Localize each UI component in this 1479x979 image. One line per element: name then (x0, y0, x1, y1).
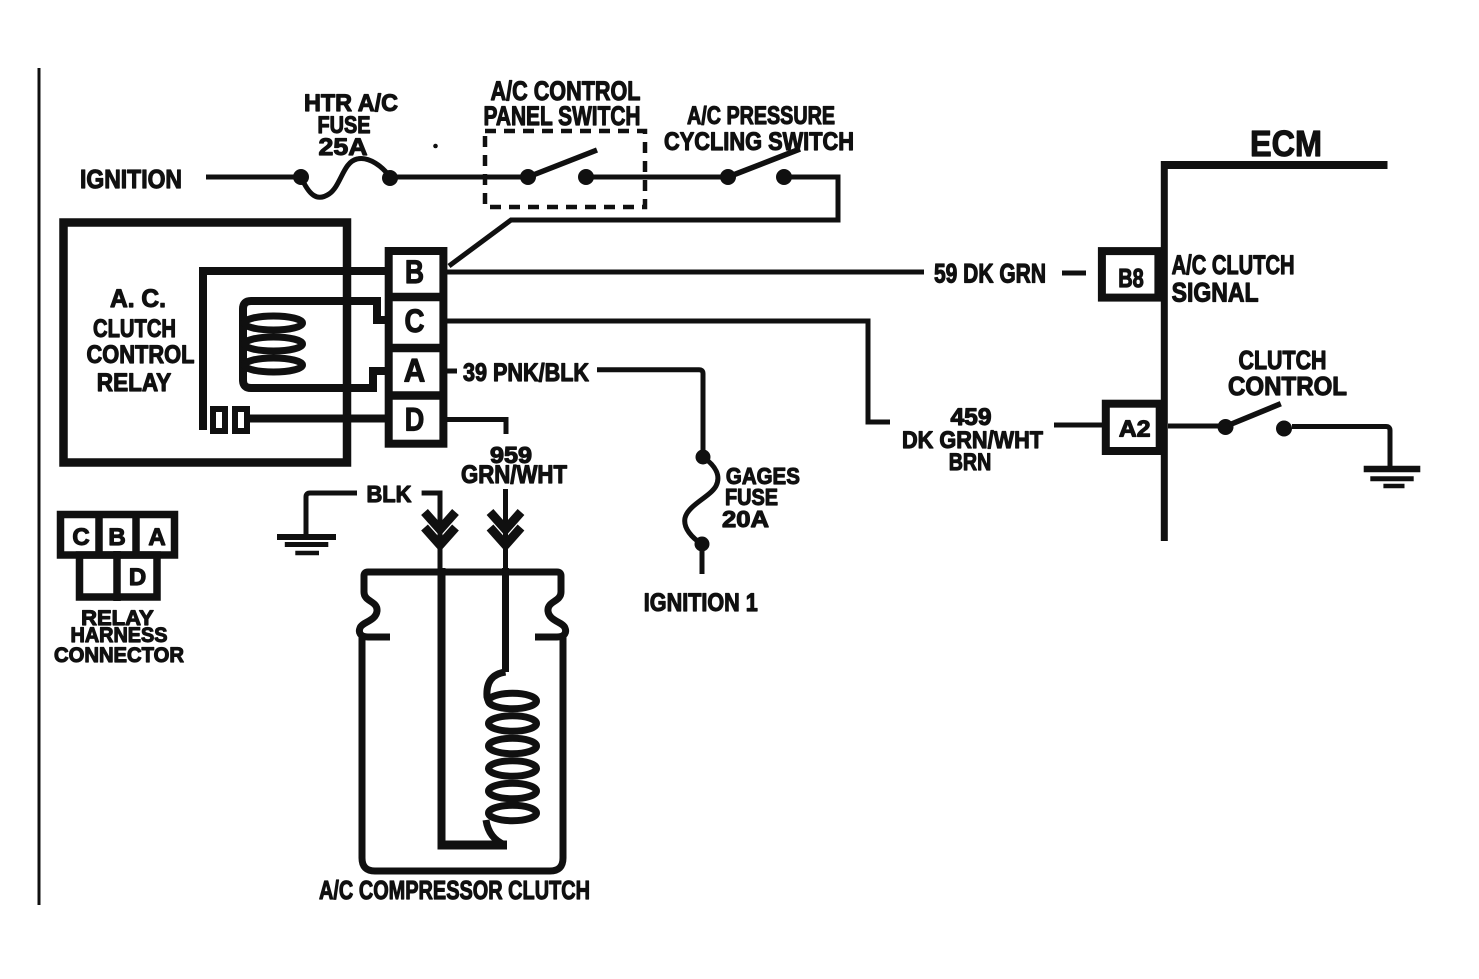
svg-text:D: D (405, 402, 425, 438)
arrow chevron right lower (490, 528, 521, 546)
pressure switch contact dot right (776, 169, 792, 185)
connector divider C|A (386, 344, 446, 353)
svg-text:A. C.: A. C. (110, 285, 166, 313)
wire 459 to A2 (1054, 423, 1106, 428)
svg-text:A: A (148, 524, 165, 551)
junction dot gages fuse bottom (695, 537, 710, 552)
ground (ECM side) bar 2 (1370, 476, 1413, 481)
svg-text:25A: 25A (319, 134, 368, 161)
harness divider B|A (132, 511, 140, 555)
wire A2 to clutch control switch (1168, 424, 1225, 429)
svg-text:CONNECTOR: CONNECTOR (54, 644, 184, 667)
relay coil box (C to A loop) (243, 301, 390, 388)
svg-text:A/C CLUTCH: A/C CLUTCH (1172, 250, 1295, 280)
svg-text:39 PNK/BLK: 39 PNK/BLK (463, 359, 589, 387)
pressure switch blade (728, 149, 800, 177)
clutch coil winding 5 (489, 783, 537, 798)
clutch control switch blade (1229, 404, 1281, 425)
connector divider B|C (386, 293, 446, 302)
left page border (38, 68, 41, 905)
wire BLK left segment to ground (306, 493, 357, 535)
wire B to ECM B8 (59 DK GRN) (443, 270, 924, 275)
relay coil winding 2 (245, 337, 303, 351)
svg-text:B: B (405, 254, 424, 290)
svg-text:GRN/WHT: GRN/WHT (461, 461, 567, 489)
junction dot fuse left (293, 169, 309, 185)
ground (ECM side) bar 1 (1364, 466, 1421, 473)
svg-text:ECM: ECM (1250, 123, 1322, 164)
svg-text:C: C (405, 303, 425, 339)
wire A stub (445, 369, 457, 374)
panel switch blade (528, 150, 597, 177)
arrow chevron right upper (490, 512, 521, 530)
wire 59 DK GRN to B8 (1062, 271, 1086, 276)
wire BLK right segment down to clutch (422, 493, 440, 570)
label A.C. CLUTCH CONTROL RELAY (87, 285, 195, 397)
relay coil winding 1 (245, 316, 303, 330)
relay connector B C A D outline (389, 251, 444, 444)
label RELAY HARNESS CONNECTOR (54, 607, 184, 667)
A/C control panel switch dashed box (485, 131, 645, 207)
label A/C CLUTCH SIGNAL (1172, 250, 1295, 308)
wire below gages fuse (700, 551, 705, 574)
wire D to compressor clutch (959 GRN/WHT) (443, 420, 506, 435)
clutch control switch contact dot right (1276, 421, 1292, 437)
clutch inner left wire (438, 568, 446, 845)
svg-text:CYCLING SWITCH: CYCLING SWITCH (664, 128, 854, 156)
gages fuse 20A (wavy symbol) (685, 457, 718, 544)
ECM box top edge (1161, 161, 1388, 169)
harness divider D cell (113, 551, 121, 601)
harness divider C|B (95, 511, 103, 555)
A/C compressor clutch housing top (jar neck) (359, 572, 565, 637)
wire relay contacts to terminal D (250, 415, 390, 423)
wire relay internal B feed (199, 267, 390, 275)
pressure switch contact dot left (720, 169, 736, 185)
label GAGES FUSE 20A (722, 463, 800, 532)
clutch coil winding 4 (489, 761, 537, 776)
svg-text:A: A (404, 353, 426, 389)
svg-text:IGNITION: IGNITION (80, 164, 182, 194)
wire relay internal vertical (199, 271, 207, 430)
svg-text:IGNITION 1: IGNITION 1 (644, 589, 758, 617)
svg-text:CONTROL: CONTROL (87, 341, 195, 369)
clutch coil winding 6 (489, 805, 537, 820)
svg-text:A/C PRESSURE: A/C PRESSURE (687, 102, 835, 130)
relay harness connector bottom row (80, 555, 158, 597)
clutch inner bottom bar (438, 841, 508, 850)
svg-text:B: B (108, 524, 125, 551)
svg-text:BLK: BLK (367, 481, 412, 507)
svg-text:RELAY: RELAY (97, 369, 172, 397)
relay coil winding 3 (245, 358, 303, 372)
svg-text:A2: A2 (1119, 416, 1151, 442)
svg-text:20A: 20A (722, 506, 769, 532)
wire panel switch to pressure switch (586, 175, 728, 180)
connector divider A|D (386, 391, 446, 400)
clutch coil winding 1 (489, 693, 537, 708)
terminal B8 box (1102, 251, 1159, 298)
ground (BLK) bar 3 (295, 551, 319, 556)
arrow chevron left lower (425, 528, 456, 546)
wire 39 PNK/BLK to gages fuse (597, 370, 703, 450)
svg-text:A/C COMPRESSOR CLUTCH: A/C COMPRESSOR CLUTCH (319, 875, 590, 905)
clutch inner right wire (502, 568, 509, 672)
arrow chevron left upper (425, 512, 456, 530)
clutch coil bottom bend (486, 820, 505, 845)
clutch coil top bend (487, 672, 506, 705)
label HTR A/C FUSE 25A (304, 90, 398, 161)
svg-text:C: C (72, 524, 89, 551)
clutch coil winding 2 (489, 716, 537, 731)
terminal A2 box (1106, 404, 1160, 451)
svg-text:BRN: BRN (949, 449, 992, 476)
ECM box left edge (1161, 161, 1168, 541)
junction dot fuse right (382, 170, 398, 186)
label 959 GRN/WHT (461, 442, 567, 489)
A/C compressor clutch housing body (362, 634, 563, 871)
relay contact left (213, 409, 225, 431)
label A/C CONTROL PANEL SWITCH (484, 76, 641, 131)
svg-text:CLUTCH: CLUTCH (93, 315, 176, 343)
svg-text:59 DK GRN: 59 DK GRN (934, 259, 1046, 289)
label CLUTCH CONTROL (1228, 345, 1347, 401)
wire C to 459 label (443, 321, 890, 422)
svg-text:CONTROL: CONTROL (1228, 371, 1347, 401)
ground (ECM side) bar 3 (1383, 484, 1404, 489)
panel switch contact dot left (520, 169, 536, 185)
panel switch contact dot right (578, 169, 594, 185)
junction dot gages fuse top (696, 450, 711, 465)
relay contact right (235, 409, 247, 431)
relay harness connector top row (61, 515, 175, 556)
label A/C PRESSURE CYCLING SWITCH (664, 102, 854, 156)
svg-text:B8: B8 (1118, 263, 1144, 293)
svg-text:SIGNAL: SIGNAL (1172, 278, 1259, 308)
ground (BLK) bar 1 (277, 534, 336, 540)
wire switch to ground (1292, 427, 1390, 468)
fuse HTR A/C 25A (wavy symbol) (301, 158, 390, 197)
wire 959 down to clutch (503, 489, 508, 570)
ground (BLK) bar 2 (285, 542, 329, 547)
svg-text:D: D (129, 564, 146, 591)
clutch coil winding 3 (489, 738, 537, 753)
wire fuse to panel switch (390, 175, 528, 180)
svg-text:PANEL SWITCH: PANEL SWITCH (484, 101, 641, 131)
clutch control switch contact dot left (1218, 419, 1234, 435)
label 459 DK GRN/WHT BRN (902, 404, 1043, 476)
wire ignition to fuse (206, 175, 301, 180)
wire pressure switch down to relay terminal B (449, 177, 838, 266)
speck artifact (433, 144, 438, 149)
relay box A.C. clutch control relay (64, 223, 348, 463)
